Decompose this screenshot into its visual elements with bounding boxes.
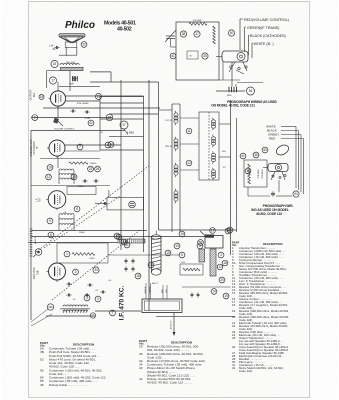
svg-text:1 MEG: 1 MEG xyxy=(90,163,97,165)
svg-text:7: 7 xyxy=(79,145,81,149)
svg-text:RECT: RECT xyxy=(152,283,159,285)
svg-text:25: 25 xyxy=(232,336,236,340)
svg-text:40-502, CODE 122: 40-502, CODE 122 xyxy=(256,212,282,216)
svg-text:17: 17 xyxy=(122,123,126,127)
svg-text:7A8: 7A8 xyxy=(35,270,39,275)
svg-text:KC: KC xyxy=(223,167,226,169)
svg-text:36: 36 xyxy=(254,153,258,157)
svg-text:4 MEG: 4 MEG xyxy=(127,133,134,135)
svg-text:OUTPUT: OUTPUT xyxy=(29,89,33,100)
svg-text:5: 5 xyxy=(181,253,183,257)
svg-text:41: 41 xyxy=(89,121,93,125)
svg-text:I.F. 470 KC.: I.F. 470 KC. xyxy=(119,285,126,320)
svg-text:40: 40 xyxy=(263,148,267,152)
svg-text:1ST IF: 1ST IF xyxy=(165,120,172,122)
svg-text:8: 8 xyxy=(76,207,78,211)
svg-text:Code 122): Code 122) xyxy=(239,369,252,373)
svg-text:RED(VOLUME CONTROL): RED(VOLUME CONTROL) xyxy=(244,18,289,22)
svg-text:RED: RED xyxy=(269,137,276,141)
svg-text:40-502: 40-502 xyxy=(117,27,132,33)
svg-text:BLACK (CATHODES): BLACK (CATHODES) xyxy=(250,34,286,38)
svg-text:2: 2 xyxy=(92,314,94,318)
svg-text:7: 7 xyxy=(112,311,114,315)
svg-text:VOLUME: VOLUME xyxy=(258,169,260,178)
svg-text:250M: 250M xyxy=(79,232,85,234)
svg-text:26: 26 xyxy=(232,345,236,349)
svg-text:32: 32 xyxy=(82,43,86,47)
svg-text:GREEN(IF TRANS): GREEN(IF TRANS) xyxy=(247,26,279,30)
svg-text:26: 26 xyxy=(96,167,100,171)
svg-text:Pickup Cable .................: Pickup Cable ....................... xyxy=(49,383,88,387)
svg-text:7B7: 7B7 xyxy=(39,197,42,202)
svg-text:41A: 41A xyxy=(33,92,36,97)
svg-text:18: 18 xyxy=(223,261,227,265)
svg-text:11: 11 xyxy=(187,129,191,133)
svg-text:5: 5 xyxy=(97,297,99,301)
svg-text:20: 20 xyxy=(220,278,224,282)
svg-text:2: 2 xyxy=(199,244,201,248)
svg-text:40: 40 xyxy=(230,31,234,35)
svg-text:TONE: TONE xyxy=(84,118,91,120)
svg-text:23: 23 xyxy=(89,167,93,171)
svg-text:19: 19 xyxy=(224,294,228,298)
svg-text:15: 15 xyxy=(166,251,170,255)
svg-text:3: 3 xyxy=(75,270,77,274)
svg-text:16: 16 xyxy=(180,232,184,236)
svg-text:32: 32 xyxy=(232,366,236,370)
svg-text:37: 37 xyxy=(195,32,199,36)
svg-text:16: 16 xyxy=(40,95,44,99)
svg-text:.0025: .0025 xyxy=(89,258,95,260)
svg-text:MFD: MFD xyxy=(227,95,232,97)
svg-text:12: 12 xyxy=(218,265,222,269)
svg-text:19: 19 xyxy=(232,309,236,313)
svg-text:BLACK: BLACK xyxy=(144,286,147,293)
svg-text:18: 18 xyxy=(136,274,140,278)
svg-text:3: 3 xyxy=(220,253,222,257)
svg-text:54: 54 xyxy=(294,192,298,196)
svg-text:3B: 3B xyxy=(40,350,44,354)
svg-text:29: 29 xyxy=(139,345,143,349)
svg-text:36: 36 xyxy=(139,352,143,356)
svg-text:47M OHMS: 47M OHMS xyxy=(77,103,89,105)
svg-text:4: 4 xyxy=(86,296,88,300)
svg-text:22: 22 xyxy=(232,324,236,328)
svg-text:15: 15 xyxy=(232,291,236,295)
svg-text:14: 14 xyxy=(212,290,216,294)
svg-text:Philco: Philco xyxy=(65,20,95,31)
svg-text:40-502, 40-502, Code 122 .....: 40-502, 40-502, Code 122 ......... xyxy=(147,381,192,385)
svg-text:OSC: OSC xyxy=(181,262,186,264)
svg-text:17: 17 xyxy=(211,229,215,233)
svg-text:35: 35 xyxy=(203,54,207,58)
svg-text:10: 10 xyxy=(175,244,179,248)
svg-text:VOLUME: VOLUME xyxy=(193,20,202,22)
svg-text:WHITE (B- ): WHITE (B- ) xyxy=(254,42,274,46)
svg-text:2ND IF: 2ND IF xyxy=(165,146,173,148)
svg-text:12: 12 xyxy=(47,175,51,179)
svg-text:15: 15 xyxy=(53,62,57,66)
svg-text:41: 41 xyxy=(117,235,121,239)
svg-text:41: 41 xyxy=(171,54,175,58)
svg-text:40-60 CY: 40-60 CY xyxy=(171,320,173,330)
svg-text:56: 56 xyxy=(40,368,44,372)
svg-text:41: 41 xyxy=(139,377,143,381)
svg-text:20: 20 xyxy=(232,315,236,319)
svg-text:6: 6 xyxy=(107,143,109,147)
svg-text:19: 19 xyxy=(48,166,52,170)
svg-text:38: 38 xyxy=(40,383,44,387)
svg-text:30: 30 xyxy=(246,169,250,173)
svg-text:CONTROL: CONTROL xyxy=(262,168,264,179)
svg-text:1 MEG: 1 MEG xyxy=(77,186,84,188)
svg-text:42: 42 xyxy=(122,240,126,244)
svg-text:1: 1 xyxy=(66,252,68,256)
svg-text:8: 8 xyxy=(34,116,36,120)
svg-text:54: 54 xyxy=(249,89,253,93)
svg-text:34: 34 xyxy=(94,268,98,272)
svg-text:40: 40 xyxy=(139,366,143,370)
svg-text:53: 53 xyxy=(40,357,44,361)
svg-text:41: 41 xyxy=(241,154,245,158)
svg-text:38: 38 xyxy=(182,32,186,36)
svg-text:17: 17 xyxy=(51,79,55,83)
svg-text:18: 18 xyxy=(232,303,236,307)
svg-text:ON MODEL 40-502, CODE 121: ON MODEL 40-502, CODE 121 xyxy=(211,104,255,108)
svg-text:9: 9 xyxy=(49,219,51,223)
svg-text:12: 12 xyxy=(187,161,191,165)
svg-text:54: 54 xyxy=(226,229,230,233)
